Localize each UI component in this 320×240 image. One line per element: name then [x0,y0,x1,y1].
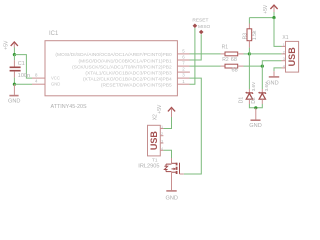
wire node D+ down to D2 [261,66,263,89]
svg-text:D2: D2 [251,97,257,104]
node B junction [13,83,16,86]
svg-text:100n: 100n [18,73,30,79]
svg-text:(XTAL1/CLKI/OC1B/ADC3/PCINT3)P: (XTAL1/CLKI/OC1B/ADC3/PCINT3)PB3 [85,70,172,76]
wire +5V to X2 pin1 [163,117,171,129]
svg-text:(MISO/DO/AIN1/OC0B/OC1A/PCINT1: (MISO/DO/AIN1/OC0B/OC1A/PCINT1)PB1 [79,58,172,64]
svg-text:3: 3 [283,57,285,61]
wire R1 to node D- [244,53,250,55]
svg-text:USB: USB [149,131,159,151]
ground symbol at T1 [166,191,178,202]
pin PB1 (6) stub [79,55,190,65]
svg-text:2: 2 [283,50,285,54]
zener diode D2 [251,89,266,104]
svg-text:RESET: RESET [192,18,208,24]
pin GND (4) stub [32,79,60,87]
svg-text:(MOSI/DI/SDA/AIN0/OC0A/OC1A/AR: (MOSI/DI/SDA/AIN0/OC0A/OC1A/AREF/PCINT0)… [55,52,172,58]
svg-text:VCC: VCC [51,76,60,81]
pin PB0 (5) stub [55,49,189,59]
wire X1 pin4 to ground [274,68,282,71]
ground symbol at zeners [249,108,261,129]
svg-text:+5V: +5V [4,40,10,50]
node C junction [272,16,275,19]
zener diode D1 [238,89,253,104]
wire R3 bottom to node D- [248,48,250,54]
connector X2 [148,125,164,156]
svg-text:4: 4 [161,147,163,151]
svg-text:1.5k: 1.5k [252,30,258,40]
wire rail to node C [249,17,274,19]
node E junction [254,106,257,109]
wire R2 to node D+ [244,65,263,67]
wire PB0 to R1 [190,53,221,55]
+5V supply symbol mid [157,104,175,117]
wire node C to X1 pin1 [274,18,282,47]
wire node D- to X1 pin2 [249,53,281,55]
wire R3 top to +5V rail [248,18,250,24]
svg-text:IC1: IC1 [49,31,59,37]
svg-text:2: 2 [182,67,185,72]
svg-text:+5V: +5V [157,104,163,114]
wire PB4 to gate [184,78,202,174]
wire MISO to PB1 [190,34,202,60]
wire RESET to PB5 [190,28,195,84]
wire node D- down to D1 [248,54,250,89]
svg-text:3.6V: 3.6V [251,81,256,91]
svg-text:5: 5 [182,49,185,54]
svg-text:(XTAL2/CLKO/OC1B/ADC2/PCINT4)P: (XTAL2/CLKO/OC1B/ADC2/PCINT4)PB4 [83,76,172,82]
ground symbol at X1 [266,71,279,86]
IC U1 box [45,41,177,96]
svg-text:ATTINY45-20S: ATTINY45-20S [51,104,88,110]
svg-text:7: 7 [182,61,185,66]
svg-text:3: 3 [161,140,163,144]
svg-text:1: 1 [283,43,285,47]
svg-text:68: 68 [232,67,238,73]
svg-text:R1: R1 [222,45,229,51]
capacitor C1 [10,55,30,85]
wire node D+ to X1 pin3 [262,61,281,66]
node D- junction [248,52,251,55]
svg-text:GND: GND [166,195,178,201]
svg-text:GND: GND [249,123,261,129]
svg-text:68: 68 [231,57,237,63]
resistor R3 [242,24,251,48]
svg-text:8: 8 [35,73,38,78]
svg-text:MISO: MISO [198,24,211,30]
port MISO [198,24,211,34]
svg-text:GND: GND [8,98,20,104]
svg-text:(RESET/DW/ADC0/PCINT5)PB5: (RESET/DW/ADC0/PCINT5)PB5 [101,83,172,89]
ground symbol left [8,84,20,104]
pin PB2 (7) stub [72,61,189,71]
wire +5V to node C [273,12,275,18]
svg-text:R3: R3 [242,33,248,40]
svg-text:(SCK/USCK/SCL/ADC1/T0/INT0/PCI: (SCK/USCK/SCL/ADC1/T0/INT0/PCINT2)PB2 [72,64,172,70]
+5V supply symbol right [263,4,278,14]
svg-text:C1: C1 [18,61,25,67]
wire node B to GND pin [14,83,32,85]
resistor R2 [221,57,244,68]
svg-text:1: 1 [182,79,185,84]
pin PB5 (1) stub [101,79,190,89]
svg-text:2: 2 [161,132,163,136]
svg-text:IRL2905: IRL2905 [138,163,159,169]
node A junction [13,53,16,56]
wire X2 pin4 to drain [163,150,171,158]
svg-text:X2: X2 [153,114,159,120]
connector X1 [282,35,299,72]
svg-text:GND: GND [51,82,60,87]
svg-text:4: 4 [283,64,285,68]
wire PB2 to R2 [190,65,221,67]
svg-text:D1: D1 [238,97,244,104]
svg-text:6: 6 [182,55,185,60]
+5V supply symbol left [4,40,18,50]
svg-text:+5V: +5V [263,4,269,14]
port RESET [192,18,208,29]
pin PB3 (2) stub unconnected [85,67,190,77]
svg-text:3.6V: 3.6V [264,81,269,91]
svg-text:4: 4 [35,79,38,84]
svg-text:R2: R2 [222,57,229,63]
wire D1 D2 to ground node [249,104,262,108]
pin VCC (8) stub [32,73,60,81]
wire node A to VCC pin [14,55,32,79]
svg-text:X1: X1 [282,35,288,41]
svg-text:3: 3 [182,73,185,78]
svg-text:T1: T1 [152,157,158,162]
node D+ junction [261,65,264,68]
pin PB4 (3) stub [83,73,190,83]
transistor T1 [152,157,184,190]
svg-text:1: 1 [161,125,163,129]
resistor R1 [221,45,244,63]
wire +5V to node A [13,48,15,55]
svg-text:USB: USB [287,47,297,67]
